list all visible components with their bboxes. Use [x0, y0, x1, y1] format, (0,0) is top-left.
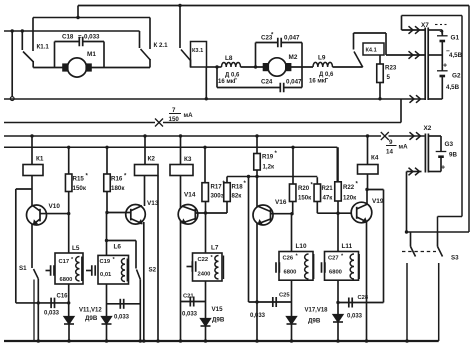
svg-text:Х2: Х2: [424, 125, 432, 132]
svg-text:R23: R23: [385, 65, 397, 72]
svg-text:М2: М2: [289, 54, 298, 61]
svg-text:0,033: 0,033: [114, 315, 130, 321]
svg-text:1,2к: 1,2к: [263, 164, 275, 171]
svg-text:R16: R16: [111, 176, 123, 183]
svg-text:G2: G2: [452, 73, 461, 80]
svg-text:V10: V10: [49, 203, 61, 210]
svg-text:G1: G1: [451, 35, 460, 42]
svg-text:82к: 82к: [232, 193, 243, 200]
svg-text:R22: R22: [343, 184, 355, 191]
svg-text:=: =: [78, 34, 82, 41]
svg-text:К3: К3: [184, 156, 192, 163]
svg-text:С18: С18: [62, 34, 74, 41]
svg-text:С21: С21: [183, 294, 194, 300]
svg-text:4,5В: 4,5В: [446, 84, 460, 91]
svg-text:С22: С22: [198, 257, 209, 263]
svg-text:+: +: [443, 63, 447, 70]
svg-text:V13: V13: [147, 200, 159, 207]
svg-text:Д9В: Д9В: [212, 317, 225, 324]
svg-text:К4: К4: [371, 155, 379, 162]
svg-text:R18: R18: [232, 184, 244, 191]
svg-text:6800: 6800: [329, 270, 342, 276]
svg-text:R15: R15: [73, 176, 85, 183]
svg-text:М1: М1: [87, 51, 96, 58]
svg-text:9: 9: [389, 139, 393, 146]
svg-text:300э: 300э: [211, 193, 225, 200]
svg-text:R17: R17: [211, 184, 223, 191]
svg-text:V14: V14: [184, 192, 196, 199]
svg-text:V15: V15: [212, 306, 224, 313]
svg-text:14: 14: [386, 149, 393, 156]
svg-text:V17,V18: V17,V18: [305, 308, 329, 314]
svg-text:С16: С16: [57, 294, 69, 300]
svg-text:47к: 47к: [323, 195, 334, 202]
svg-text:G3: G3: [445, 141, 454, 148]
svg-text:6800: 6800: [284, 270, 297, 276]
svg-text:С27: С27: [328, 256, 339, 262]
svg-text:120к: 120к: [343, 195, 357, 202]
svg-text:+: +: [439, 29, 443, 36]
svg-text:R21: R21: [322, 185, 334, 192]
svg-text:6800: 6800: [60, 277, 73, 283]
svg-text:С19: С19: [100, 259, 111, 265]
svg-text:Д9В: Д9В: [85, 315, 98, 322]
svg-text:S1: S1: [19, 265, 27, 272]
svg-text:S2: S2: [149, 267, 157, 274]
svg-text:150к: 150к: [73, 185, 87, 192]
svg-text:0,033: 0,033: [84, 34, 100, 41]
svg-text:мА: мА: [184, 112, 194, 119]
svg-text:С24: С24: [261, 79, 273, 86]
svg-text:мА: мА: [399, 144, 409, 151]
svg-text:0,047: 0,047: [286, 79, 302, 86]
svg-text:L11: L11: [342, 243, 353, 250]
svg-text:К 2.1: К 2.1: [154, 42, 169, 49]
svg-text:Д9В: Д9В: [308, 318, 321, 325]
svg-text:К2: К2: [148, 156, 156, 163]
svg-text:16 мкГ: 16 мкГ: [309, 79, 329, 85]
svg-text:L6: L6: [114, 244, 122, 251]
svg-text:L9: L9: [318, 55, 326, 62]
svg-text:0,033: 0,033: [182, 312, 198, 318]
svg-text:V19: V19: [372, 198, 384, 205]
svg-text:К1: К1: [36, 156, 44, 163]
svg-text:L5: L5: [72, 245, 80, 252]
svg-text:С25: С25: [279, 293, 290, 299]
svg-text:К3.1: К3.1: [192, 48, 203, 54]
svg-text:0,01: 0,01: [100, 272, 112, 278]
svg-text:L8: L8: [225, 55, 233, 62]
svg-text:L10: L10: [296, 243, 307, 250]
svg-text:0,033: 0,033: [347, 314, 363, 320]
svg-text:С26: С26: [283, 256, 294, 262]
svg-text:V16: V16: [275, 199, 287, 206]
svg-text:180к: 180к: [111, 185, 125, 192]
svg-text:5: 5: [387, 74, 391, 81]
svg-text:Д 0,6: Д 0,6: [319, 72, 334, 78]
svg-text:L7: L7: [211, 245, 219, 252]
svg-text:R20: R20: [298, 185, 310, 192]
svg-text:К4.1: К4.1: [366, 48, 377, 54]
svg-text:С17: С17: [59, 259, 70, 265]
svg-text:0,033: 0,033: [44, 311, 60, 317]
svg-text:9В: 9В: [449, 152, 457, 159]
svg-text:150: 150: [169, 116, 180, 123]
svg-text:V11,V12: V11,V12: [79, 308, 102, 314]
svg-text:R19: R19: [262, 154, 274, 161]
svg-text:4,5В: 4,5В: [449, 52, 463, 59]
svg-text:К1.1: К1.1: [37, 44, 50, 51]
svg-text:16 мкГ: 16 мкГ: [218, 79, 238, 85]
svg-text:+: +: [441, 165, 445, 172]
svg-text:2400: 2400: [198, 272, 211, 278]
svg-text:0,047: 0,047: [284, 35, 300, 42]
svg-text:S3: S3: [451, 255, 459, 262]
svg-text:7: 7: [172, 107, 176, 114]
svg-text:0,033: 0,033: [250, 313, 266, 319]
svg-text:150к: 150к: [298, 195, 312, 202]
svg-text:Д 0,6: Д 0,6: [225, 73, 240, 79]
